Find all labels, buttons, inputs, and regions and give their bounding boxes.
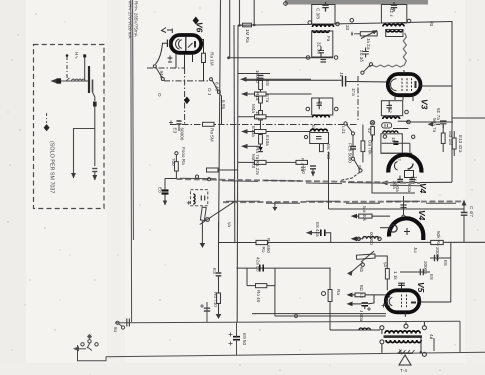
AF line y316	[275, 315, 386, 317]
bus feed vertical x218.5	[218, 222, 220, 243]
svg-text:Ma 1M: Ma 1M	[448, 131, 453, 145]
wire from S2b down	[220, 94, 222, 125]
svg-text:700: 700	[171, 158, 176, 166]
svg-text:30a: 30a	[392, 181, 397, 189]
tone cap lead left arrow	[309, 232, 321, 234]
cap E3 lead	[178, 124, 180, 131]
HT bus wire	[219, 241, 485, 243]
IF5 terminal in	[383, 135, 386, 138]
svg-text:946: 946	[159, 71, 164, 79]
bus vertical B2	[253, 0, 255, 25]
osc section dash-dot vertical	[184, 68, 186, 125]
IFT3 coil	[313, 115, 330, 117]
OT right top wire to bus	[423, 322, 425, 326]
right feed vertical x453	[451, 21, 453, 182]
row y162.4	[238, 161, 307, 163]
IFT3 terminal left	[306, 107, 310, 111]
heater bypass stub x207	[206, 302, 208, 322]
heater choke coil row	[363, 237, 379, 239]
heater line y313.6	[252, 313, 386, 315]
components crossing shield B	[401, 196, 407, 219]
resistor E13 vertical right	[452, 138, 456, 149]
row y131.5 with arrow	[247, 131, 310, 133]
svg-text:E10a: E10a	[265, 135, 270, 146]
return bus y354 sloped	[106, 352, 485, 357]
speaker hatch ticks	[399, 350, 415, 353]
svg-text:J1: J1	[339, 72, 344, 77]
bus left step	[78, 345, 107, 361]
V3 cathode arc	[391, 79, 397, 91]
IF5 terminal out	[412, 135, 415, 138]
shield braid run A dark overlay	[180, 178, 420, 186]
cathode line y182	[384, 181, 452, 184]
V5 bottom pin	[404, 312, 406, 317]
resistor R2a horizontal	[255, 115, 267, 119]
arrowhead left y146.3	[241, 144, 248, 149]
svg-text:V4: V4	[418, 183, 428, 194]
IFT5 terminal	[304, 135, 307, 138]
cap E3 chain plates	[216, 273, 222, 276]
chassis ground stub	[272, 202, 277, 211]
cap E8 r2	[420, 269, 423, 275]
svg-text:E3: E3	[212, 268, 217, 274]
switch contact S2b	[217, 91, 220, 94]
anode coil lead line y330	[330, 329, 380, 331]
resistor Ma+ vertical right	[385, 269, 389, 280]
osc trim cap	[201, 196, 204, 201]
wire to cap FE3	[352, 135, 354, 146]
IFT1 secondary coil	[313, 30, 330, 32]
svg-text:Jω: Jω	[413, 247, 418, 253]
E9 top lead	[236, 322, 238, 337]
resistor E8 vertical	[259, 81, 263, 90]
svg-text:θ3: θ3	[429, 21, 434, 27]
svg-text:20000: 20000	[435, 247, 440, 260]
diamond above V6	[193, 17, 199, 25]
wire resistor bottom	[386, 279, 388, 290]
svg-text:E13a: E13a	[251, 126, 256, 137]
L-wire inside box	[74, 129, 96, 179]
padder dash-dot row y124.5	[170, 124, 358, 126]
cap J1 series plates	[341, 76, 343, 87]
cross in circle	[371, 121, 374, 124]
OT terminal left top	[380, 326, 384, 330]
wire Da top	[362, 125, 364, 141]
pickup plug contact b	[121, 326, 124, 329]
diamond on osc vertical	[184, 97, 190, 105]
cathode cap lead arrow	[348, 303, 362, 305]
bar end terminal circle	[284, 2, 288, 6]
svg-text:E8 42a: E8 42a	[315, 222, 320, 237]
AVC branch vertical x372	[372, 135, 415, 193]
svg-text:Ro 650: Ro 650	[266, 238, 271, 253]
sec terminal right	[334, 56, 338, 60]
branch y258	[430, 257, 451, 259]
svg-text:33: 33	[345, 25, 350, 31]
resistor Ro 650 on bus	[256, 240, 268, 244]
wire pot right end down	[376, 256, 388, 269]
speaker hatch bar	[398, 352, 413, 354]
diode bar	[259, 151, 263, 153]
chain wire to ground arrow	[218, 304, 220, 315]
grid feed wire	[365, 294, 386, 296]
svg-text:Σ0 3δ: Σ0 3δ	[359, 50, 364, 62]
wire resistor to row	[175, 171, 177, 179]
OT primary winding	[385, 331, 420, 334]
wire arrow to coil	[355, 238, 363, 240]
IF5 bottom line	[381, 152, 412, 154]
svg-text:1 1k: 1 1k	[393, 271, 398, 280]
mid terminal circle	[350, 19, 354, 23]
V3 grid dashes 2	[406, 78, 408, 91]
IF5 link y143.3	[382, 142, 410, 144]
trimmer cap C-a	[93, 92, 95, 101]
svg-text:8o: 8o	[113, 327, 118, 333]
coupling cap at feeder	[162, 187, 169, 206]
V3 pin down 3	[412, 95, 414, 101]
svg-text:42a E8: 42a E8	[256, 257, 261, 272]
V5 plate wire right	[419, 301, 451, 303]
cap C47 lead down	[463, 215, 465, 242]
diamond junction mark	[44, 124, 50, 131]
HT rail y21	[240, 23, 312, 26]
plus mark V5 left	[382, 304, 386, 308]
mains switch contact 1	[81, 343, 84, 346]
bypass cap right	[436, 121, 447, 128]
V6 grid dashes	[185, 37, 187, 51]
antenna coil winding L1	[72, 79, 86, 81]
ferrite bead	[57, 78, 62, 83]
IFT3 terminal right	[334, 107, 338, 111]
svg-text:Ro 710: Ro 710	[213, 292, 218, 307]
svg-text:Ra: Ra	[336, 289, 341, 295]
dropper resistor R top	[243, 23, 252, 27]
V6 anode bar	[194, 41, 196, 48]
wire E13 bottom	[453, 149, 455, 156]
wire cap junction down	[365, 295, 374, 309]
decoupler chain x218.5	[218, 243, 220, 273]
pickup plug contact a	[116, 321, 119, 324]
lower loop wires	[247, 268, 275, 286]
svg-text:δδ0: δδ0	[301, 166, 306, 174]
svg-text:H∿: H∿	[74, 52, 79, 59]
IFT1 sec cap	[319, 47, 325, 58]
V6 cathode arc	[176, 39, 182, 49]
band switch dash-dot row 1	[147, 67, 185, 69]
trimmer plates	[92, 168, 97, 170]
pot slash	[361, 251, 374, 262]
shield braid run B	[223, 200, 462, 203]
screen line y73.5	[238, 73, 270, 75]
svg-text:Ra 1M: Ra 1M	[210, 52, 215, 66]
cap lead down with arrow	[164, 194, 166, 206]
trimmer blob	[93, 102, 97, 107]
shielded lead zigzag	[369, 33, 406, 67]
B7 to V4 screen vertical x328.5	[328, 152, 330, 209]
switch 2 blade	[354, 160, 359, 169]
dashed enclosure box	[34, 45, 105, 209]
plus mark cathode	[367, 307, 371, 311]
small choke coil on y330	[359, 328, 370, 330]
resistor 4k vertical	[371, 127, 375, 135]
node square dot	[83, 54, 86, 57]
loop left vertical	[246, 268, 248, 286]
drop to Eo cap	[164, 179, 166, 191]
svg-text:20000: 20000	[423, 261, 428, 274]
cap E blob plates	[162, 189, 169, 191]
extra component value labels	[157, 8, 463, 303]
V3 grid dashes 1	[401, 78, 403, 91]
OT terminal right top	[422, 326, 426, 330]
IFT3 can box	[312, 98, 333, 115]
shield A contact 1	[195, 175, 198, 178]
svg-text:1x: 1x	[413, 176, 418, 182]
V5 grid dashes 1	[401, 295, 403, 309]
resistor Ra 1M vertical	[202, 53, 206, 62]
V5 grid cap bars top	[398, 283, 405, 285]
grid cap plate2	[169, 40, 171, 48]
V4a inner electrode hook	[408, 164, 414, 170]
small tick arrow on lead	[66, 78, 70, 81]
V3 pin down 1	[394, 95, 396, 100]
IFT1 secondary box	[312, 31, 333, 57]
dash-dot link wire	[66, 56, 68, 81]
shield arrow	[364, 66, 370, 72]
switch Ld1 contact a	[344, 122, 347, 125]
IFT5 box	[310, 133, 329, 144]
stub left of branch y272	[400, 271, 414, 273]
IFT2 primary coil	[383, 24, 404, 26]
wire x330 lower	[329, 302, 331, 331]
stub contact circle	[402, 215, 405, 218]
row y178.5	[165, 178, 177, 180]
volume pot body	[356, 254, 375, 259]
svg-text:R1a: R1a	[255, 92, 260, 101]
antenna lead arrowhead	[51, 79, 58, 84]
series cap 42a E8	[260, 265, 263, 272]
cap below R41a	[310, 165, 316, 167]
OT secondary left wire down	[381, 344, 383, 353]
right feed horizontal y118	[452, 117, 485, 119]
resistor Ra x330 vertical	[328, 290, 332, 302]
label circle Ra J	[322, 292, 326, 296]
resistor Ra 5M on row	[203, 122, 215, 126]
IFT1 can box	[312, 5, 335, 25]
svg-text:E8: E8	[429, 274, 434, 280]
bus vertical A2	[229, 0, 231, 58]
HT rail right part	[311, 22, 452, 25]
IFT1 tuning cap	[322, 2, 328, 12]
switch contact S2a	[210, 78, 213, 81]
resistor Ra 700 vertical	[175, 162, 179, 171]
coupling stub vertical x403.5	[403, 196, 405, 215]
svg-text:6 46: 6 46	[215, 82, 220, 91]
wire resistor to osc switch row	[203, 63, 205, 81]
wire E13 top	[453, 131, 455, 138]
OT bottom arrow	[433, 338, 435, 351]
AF line y268	[237, 267, 331, 269]
wire to down arrow	[201, 221, 203, 243]
resistor Da 70k vertical	[361, 141, 365, 152]
V6 pin wire bottom 3	[192, 54, 194, 62]
switch contact S1b	[161, 78, 164, 81]
faint scanner streaks	[0, 0, 26, 375]
svg-text:8b: 8b	[359, 267, 364, 273]
ticks in box 41	[385, 124, 388, 127]
resistor Ra 50k on bus	[431, 240, 444, 244]
tube V4a envelope arc	[388, 155, 421, 173]
cap C47 lead up	[463, 206, 465, 213]
V3 pin down 2	[402, 95, 404, 100]
svg-text:E3: E3	[173, 128, 178, 134]
svg-text:Ra 5M: Ra 5M	[210, 128, 215, 142]
AGC line y57.5	[228, 57, 334, 59]
top pin tick	[162, 28, 173, 34]
switch contact 2a	[351, 157, 354, 160]
coupling winding bar	[92, 80, 94, 93]
svg-text:V4: V4	[417, 210, 427, 221]
electrolytic E9 bars	[233, 337, 240, 340]
V5 anode bar	[411, 302, 416, 304]
cap C 4/7	[461, 213, 468, 216]
coil terminal circle left	[357, 237, 360, 240]
IFT2 tuning cap	[391, 2, 397, 12]
OT secondary winding	[386, 340, 421, 343]
cap lead arrow down	[312, 169, 314, 176]
resistor Ro 710 vertical	[217, 293, 221, 304]
sec terminal left	[306, 56, 310, 60]
line y79.3 with arrow	[246, 78, 311, 80]
V4a cathode curl	[394, 162, 397, 171]
arrowhead left bypass	[428, 122, 434, 127]
wire cap to resistor	[442, 126, 444, 133]
svg-text:E8: E8	[443, 260, 448, 266]
IFT4 coil	[383, 117, 400, 119]
lower loop resistor Ro 40	[256, 284, 267, 288]
IF5 cap dark	[393, 142, 398, 145]
svg-text:4↙: 4↙	[367, 128, 372, 135]
dash-dot stub above diamond	[46, 113, 48, 123]
stub cap bars	[401, 205, 407, 208]
wire contact to resistor	[175, 155, 177, 162]
svg-text:V3: V3	[420, 99, 430, 110]
pot wiper wire	[350, 262, 364, 273]
shield A contact 2	[207, 178, 210, 181]
svg-text:C 4/7: C 4/7	[469, 206, 474, 217]
mains switch contact 2	[88, 340, 91, 343]
arrowhead left y131.5	[241, 129, 248, 134]
wire chain x260.5 b	[260, 103, 262, 111]
OT centre terminal stub	[405, 322, 407, 324]
rail junction dot right	[253, 24, 256, 27]
wire tube right to R grid leak	[201, 40, 203, 54]
row y116.8	[238, 116, 312, 118]
pot terminal circle	[361, 263, 364, 266]
bus vertical A	[219, 0, 221, 243]
tone cap lead to bus	[325, 233, 331, 243]
junction dot y57.8	[227, 56, 230, 59]
svg-text:E8: E8	[265, 80, 270, 86]
wire chain x260.5	[260, 90, 262, 94]
OT centre terminal	[404, 324, 408, 328]
band switch dash-dot row 2	[164, 80, 210, 82]
svg-text:O: O	[157, 93, 162, 97]
tube V5 envelope	[386, 290, 420, 312]
cap top stub	[164, 187, 166, 191]
ground arrowhead chain	[216, 314, 222, 319]
svg-text:Ma 20t: Ma 20t	[251, 154, 256, 169]
HT feeder wire (double run)	[130, 0, 133, 322]
bus vertical B	[239, 0, 241, 25]
svg-text:50k Ra: 50k Ra	[436, 231, 441, 246]
IFT4 cap	[387, 101, 393, 112]
IFT5 coil top	[311, 129, 328, 131]
sub box Tx	[405, 171, 414, 178]
V4b inner cross	[404, 228, 410, 235]
OT left top wire	[381, 330, 383, 334]
svg-text:10000: 10000	[255, 70, 260, 83]
grid stopper feed line y216	[354, 215, 391, 217]
OT right vertical junction dot	[420, 351, 423, 354]
svg-text:Ja Σa: Ja Σa	[366, 38, 371, 50]
cap FE3 5000	[350, 147, 356, 150]
switch Ld1 contact b	[351, 132, 354, 135]
V6 pin wire bottom 2	[184, 54, 186, 68]
plus mark heater cap	[200, 304, 204, 308]
switch blade S2	[212, 81, 218, 91]
svg-text:(SOLO PER SM 7037: (SOLO PER SM 7037	[49, 141, 55, 193]
cap E8 r1	[435, 255, 438, 261]
switch contact 2b	[359, 169, 362, 172]
wire J1 to V3 grid	[347, 81, 388, 84]
osc coil shield dashed box	[190, 190, 207, 206]
svg-text:1Γa: 1Γa	[351, 88, 356, 96]
mains arrowhead	[73, 346, 79, 351]
heater bypass cap	[204, 308, 210, 311]
svg-text:50a 7a: 50a 7a	[432, 118, 437, 132]
svg-text:6 #6: 6 #6	[221, 100, 226, 109]
arrowhead left y216	[351, 214, 357, 219]
down arrowhead	[200, 243, 206, 248]
AVC terminal	[407, 120, 411, 124]
branch y272	[414, 271, 430, 273]
rounded trimmer box 41	[382, 123, 392, 128]
shield braid run B dark overlay	[226, 201, 456, 203]
svg-text:8Ω E3: 8Ω E3	[359, 285, 364, 298]
switch contact Cu	[175, 152, 178, 155]
antenna coil lead wire	[52, 80, 89, 82]
AF vertical x330	[329, 268, 331, 290]
svg-text:20': 20'	[398, 349, 403, 355]
svg-text:Ld1: Ld1	[341, 126, 346, 134]
right end vertical x460	[459, 321, 461, 352]
coil terminal circle right	[378, 237, 381, 240]
svg-text:FE3 5000: FE3 5000	[348, 143, 353, 163]
V5 grid dashes 2	[406, 295, 408, 309]
IFT2 secondary coil	[386, 30, 403, 32]
wiper arrowhead	[347, 270, 353, 276]
switch contact S1a	[153, 65, 156, 68]
ferrite rod core bar	[88, 66, 90, 93]
node dot	[66, 54, 69, 57]
diode crystal black	[259, 147, 263, 151]
wire from cap down-left	[156, 43, 168, 64]
wire cap to switch 2	[352, 149, 354, 157]
IFT5 cap	[316, 137, 322, 139]
svg-text:4ø: 4ø	[429, 334, 434, 340]
svg-text:Ma 40k: Ma 40k	[362, 206, 367, 222]
plus lead osc	[187, 201, 191, 205]
